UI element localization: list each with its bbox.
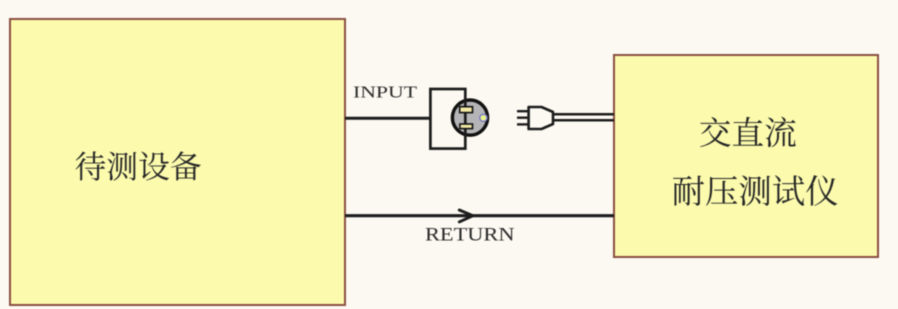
socket pin hole xyxy=(480,114,487,121)
wire INPUT xyxy=(345,117,431,120)
svg-text:INPUT: INPUT xyxy=(353,83,418,102)
plug body xyxy=(529,107,553,129)
cable line bottom xyxy=(552,119,614,122)
label DUT 待测设备 xyxy=(76,151,201,180)
label tester line2 耐压测试仪 xyxy=(673,175,837,206)
svg-text:RETURN: RETURN xyxy=(425,225,515,246)
arrowhead on RETURN wire xyxy=(459,210,473,222)
socket slot bottom xyxy=(460,124,473,129)
tester box xyxy=(614,55,878,257)
plug prong top xyxy=(517,110,529,112)
device-under-test box xyxy=(10,19,345,305)
label tester line1 交直流 xyxy=(700,117,796,147)
wire RETURN xyxy=(345,214,614,217)
socket slot top xyxy=(460,107,473,113)
socket body rectangle xyxy=(430,89,465,149)
cable line top xyxy=(552,113,614,116)
plug prong middle xyxy=(517,116,529,118)
socket face circle xyxy=(452,100,487,135)
plug prong bottom xyxy=(517,123,529,125)
